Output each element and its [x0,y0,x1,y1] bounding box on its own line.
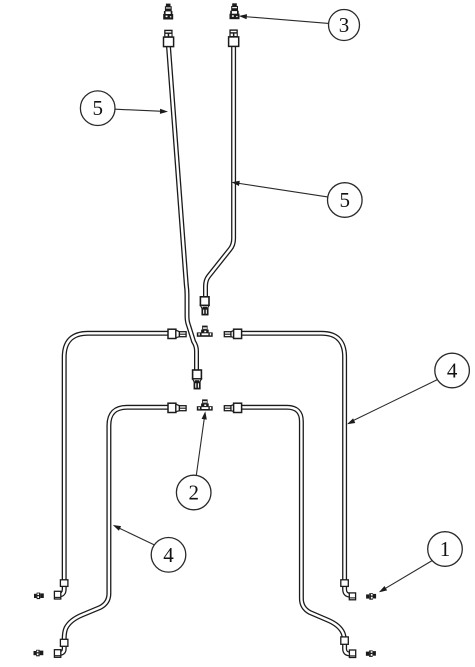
taper+ferrule H2L [176,404,186,412]
fitting item 1 (bottom-left lower) [34,650,44,657]
balloon 5 arrow (left) [160,109,168,114]
svg-text:5: 5 [92,96,103,120]
taper+ferrule H1L [176,330,186,338]
svg-text:3: 3 [339,13,350,37]
fitting item 1 (bottom-right upper) [366,593,376,600]
elbow nut H1R [349,593,355,600]
balloon 5 (left) [80,91,115,126]
lower nut of T1 (above row-2 tee) [193,370,202,389]
elbow nut H2L [54,650,60,658]
balloon 4 arrow (left) [113,525,121,531]
tee fitting row 1 (item 2) [197,326,213,337]
balloon 1 leader [383,561,432,590]
elbow nut H1L [54,591,60,599]
balloon 4 leader (left) [117,527,154,545]
balloon 3 arrow [239,14,247,19]
tube end connector (T1 top) [164,30,172,38]
balloon 5 leader (left) [115,109,163,111]
nut on H1L (row 1 left) [168,329,176,338]
balloon 2 arrow [202,411,207,419]
svg-text:5: 5 [340,188,351,212]
hose H1L (item 4, row-1 left hose) [57,333,169,595]
tube T1 (item 5, left slanted tube) [169,47,197,371]
svg-text:4: 4 [163,543,174,567]
tee fitting row 2 (item 2) [197,399,213,410]
elbow nut H2R [349,650,355,658]
balloon 4 leader (right) [351,380,438,422]
cap fitting item 3 (right, above T2) [230,3,240,19]
balloon 1 arrow [379,586,387,592]
svg-text:1: 1 [440,537,451,561]
nut on H2L (row 2 left) [168,403,176,412]
tube nut (T1 top) [164,37,174,47]
lower nut of T2 (above row-1 tee) [200,297,209,315]
hose H2L (item 4, row-2 left hose) [57,407,169,653]
balloon 4 (left) [151,538,186,573]
balloon 3 leader [244,17,329,24]
cap fitting item 3 (left, above T1) [163,4,173,20]
balloon 1 [428,532,463,567]
balloon 4 arrow (right) [347,418,355,424]
fitting item 1 (bottom-left upper) [34,593,44,600]
hose H2R (item 4, row-2 right hose) [242,407,353,654]
collar on H1R [341,580,349,587]
tube end connector (T2 top) [229,29,237,37]
tube T2 (item 5, right tube) [206,46,234,298]
balloon 5 leader (right) [237,183,328,197]
balloon 2 [176,475,211,510]
balloon 5 (right) [328,183,363,218]
ferrule+taper H2R [224,404,234,412]
balloon 2 leader [196,417,204,476]
balloon 3 [329,10,360,41]
ferrule+taper H1R [224,330,234,338]
svg-text:4: 4 [447,359,458,383]
collar on H2R [341,637,349,644]
collar on H1L [60,580,68,587]
svg-text:2: 2 [188,481,199,505]
tube nut (T2 top) [229,37,239,47]
balloon 5 arrow (right) [232,181,240,186]
collar on H2L [60,639,68,646]
fitting item 1 (bottom-right lower) [366,650,376,657]
balloon 4 (right) [435,353,470,388]
hose H1R (item 4, row-1 right hose) [242,333,353,595]
nut on H2R (row 2 right) [234,403,242,412]
nut on H1R (row 1 right) [234,329,242,338]
